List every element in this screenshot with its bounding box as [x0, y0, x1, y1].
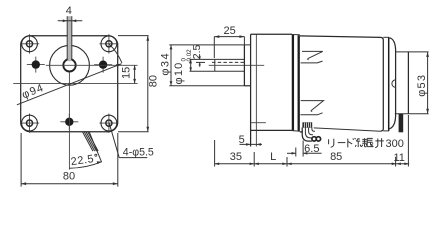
svg-text:25: 25: [223, 25, 235, 37]
svg-text:35: 35: [230, 151, 242, 163]
svg-text:85: 85: [330, 151, 342, 163]
svg-text:4-φ5.5: 4-φ5.5: [123, 147, 154, 159]
svg-text:L: L: [270, 151, 276, 163]
svg-text:80: 80: [63, 171, 75, 183]
svg-text:5: 5: [239, 134, 245, 146]
svg-text:15: 15: [121, 67, 133, 79]
svg-text:80: 80: [148, 75, 160, 87]
svg-text:4: 4: [66, 5, 72, 17]
svg-text:φ10: φ10: [173, 62, 185, 85]
svg-text:11: 11: [393, 152, 404, 164]
svg-text:φ34: φ34: [160, 52, 172, 76]
svg-text:300: 300: [386, 138, 404, 150]
svg-text:2.5: 2.5: [191, 44, 203, 59]
svg-text:6.5: 6.5: [304, 143, 319, 155]
svg-text:φ53: φ53: [416, 74, 428, 97]
